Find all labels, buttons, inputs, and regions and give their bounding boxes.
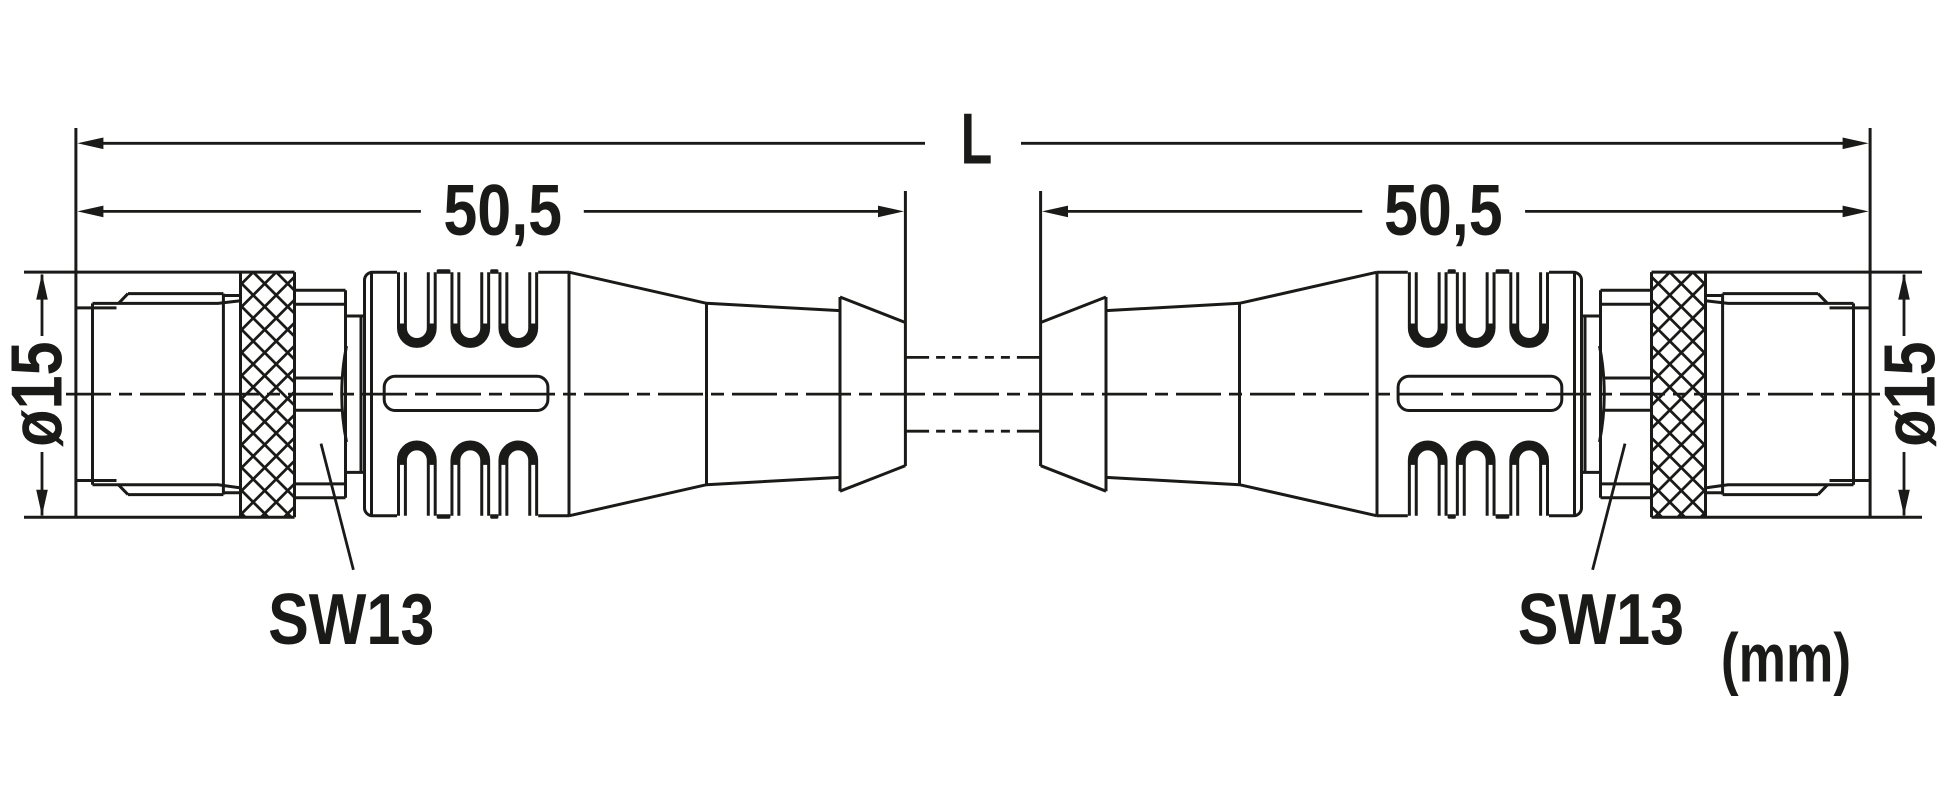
- svg-text:SW13: SW13: [268, 580, 434, 660]
- left connector: [0, 128, 973, 570]
- right connector (mirrored): [973, 128, 1946, 570]
- svg-text:ø15: ø15: [0, 341, 77, 446]
- svg-text:50,5: 50,5: [1384, 171, 1503, 251]
- svg-text:50,5: 50,5: [443, 171, 562, 251]
- svg-text:(mm): (mm): [1721, 620, 1851, 697]
- svg-text:SW13: SW13: [1518, 580, 1684, 660]
- svg-text:L: L: [961, 99, 993, 179]
- centre line: [66, 393, 1880, 396]
- svg-text:ø15: ø15: [1871, 341, 1946, 446]
